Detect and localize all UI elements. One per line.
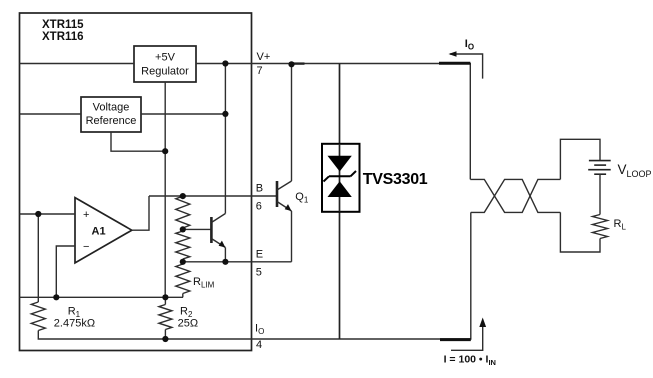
svg-text:Reference: Reference: [86, 115, 137, 127]
svg-text:+: +: [83, 209, 89, 221]
wire thick segment top rail: [439, 62, 470, 65]
svg-text:IO: IO: [255, 323, 264, 337]
TVS zener bar: [329, 175, 351, 177]
resistor middle (base to E): [176, 231, 190, 259]
svg-text:Regulator: Regulator: [141, 66, 189, 78]
wire to R1 vertical: [37, 214, 39, 302]
junction dot 2: [288, 61, 294, 67]
wire Q1 collector vertical: [291, 64, 293, 181]
transistor internal collector: [211, 214, 225, 223]
resistor upper (B to base): [176, 196, 190, 228]
op-amp A1: [75, 198, 132, 263]
svg-text:VLOOP: VLOOP: [618, 162, 652, 179]
wire base tap: [183, 228, 212, 230]
wire B row (pin 6): [149, 195, 277, 197]
junction dot 1: [222, 60, 228, 66]
svg-text:IO: IO: [465, 38, 474, 52]
svg-text:7: 7: [257, 65, 263, 77]
svg-text:4: 4: [256, 339, 262, 351]
svg-text:B: B: [256, 183, 263, 195]
transistor Q1 emitter: [277, 202, 292, 212]
wire V+ row left: [20, 63, 135, 65]
junction dot 6: [180, 193, 186, 199]
junction dot 11: [162, 294, 168, 300]
svg-text:+5V: +5V: [155, 52, 176, 64]
wire loop bottom right: [560, 212, 600, 252]
wire E row (pin 5): [183, 261, 292, 263]
transistor Q1 collector: [277, 181, 292, 190]
current return arrow: [451, 322, 483, 350]
junction dot 3: [222, 111, 228, 117]
junction dot 8: [180, 259, 186, 265]
junction dot 7: [180, 226, 186, 232]
svg-text:25Ω: 25Ω: [178, 318, 198, 330]
wire inverting input: [56, 246, 75, 297]
IO arrow top: [450, 54, 483, 79]
wire VREF output L: [111, 132, 165, 151]
wire op-amp output to B row: [132, 196, 149, 230]
wire IO row / bottom rail: [165, 212, 470, 339]
junction dot 9: [222, 259, 228, 265]
svg-text:5: 5: [256, 267, 262, 279]
TVS diode upper triangle: [328, 156, 352, 172]
svg-text:RLIM: RLIM: [193, 276, 215, 290]
twisted pair lower-left lead: [471, 179, 561, 212]
wire internal collector vertical: [224, 64, 226, 214]
TVS diode lower triangle: [328, 181, 352, 197]
wire VREF row left: [20, 113, 82, 115]
wire R1 bottom: [38, 331, 165, 340]
wire battery to RL: [599, 174, 601, 214]
wire Q1 emitter vertical: [291, 211, 293, 262]
svg-text:XTR115: XTR115: [42, 19, 84, 31]
wire thick segment bottom rail: [440, 338, 471, 341]
svg-text:Voltage: Voltage: [93, 102, 130, 114]
junction dot 12: [162, 336, 168, 342]
resistor R1: [31, 302, 45, 331]
transistor internal emitter: [211, 239, 225, 248]
battery VLOOP: [589, 160, 611, 162]
junction dot 4: [162, 148, 168, 154]
svg-text:−: −: [83, 241, 89, 253]
svg-text:Q1: Q1: [295, 191, 309, 205]
resistor RL: [593, 215, 608, 239]
wire internal emitter vertical: [224, 248, 226, 262]
wire V+ row right / top rail: [196, 64, 470, 180]
wire thick segment after Q1 collector: [293, 62, 305, 64]
svg-text:V+: V+: [257, 51, 271, 63]
svg-text:2.475kΩ: 2.475kΩ: [54, 318, 95, 330]
resistor RLIM: [176, 264, 190, 294]
svg-text:TVS3301: TVS3301: [363, 171, 428, 188]
transistor internal (base bar): [210, 217, 213, 243]
wire TVS vertical: [339, 64, 341, 340]
twisted pair upper-left lead: [470, 179, 560, 212]
wire regulator bottom vertical: [164, 82, 166, 297]
resistor R2: [164, 297, 166, 304]
svg-text:XTR116: XTR116: [42, 31, 84, 43]
wire loop top right: [560, 139, 600, 179]
wire VREF row right: [141, 113, 225, 115]
svg-text:E: E: [256, 249, 263, 261]
wire row feedback (IRET): [20, 296, 184, 298]
svg-text:6: 6: [256, 201, 262, 213]
wire op-amp noninverting input row: [20, 213, 76, 215]
svg-text:I = 100 • IIN: I = 100 • IIN: [444, 354, 496, 368]
svg-text:A1: A1: [92, 226, 106, 238]
IC outline XTR115/XTR116: [20, 13, 252, 351]
transistor Q1 base bar: [276, 181, 279, 207]
svg-text:RL: RL: [614, 218, 627, 232]
Voltage Reference block: [81, 97, 141, 132]
TVS3301 box: [322, 144, 360, 212]
junction dot 5: [35, 211, 41, 217]
+5V Regulator block: [134, 46, 196, 82]
junction dot 10: [53, 294, 59, 300]
